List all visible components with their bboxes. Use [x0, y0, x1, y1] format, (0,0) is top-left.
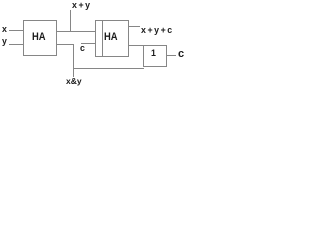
wire carry output: [167, 55, 176, 56]
wire vertical jog at x95: [95, 20, 96, 57]
half adder HA1: [23, 20, 57, 56]
output label c: [178, 50, 184, 59]
wire HA2 sum output: [129, 26, 140, 27]
wire x&y horizontal: [73, 68, 144, 69]
wire carry-in c: [81, 43, 95, 44]
or gate box 1: [143, 45, 167, 67]
node label x+y: [72, 1, 92, 10]
wire HA1 carry output: [57, 44, 74, 45]
node label x&y: [66, 77, 82, 86]
input label x: [2, 25, 7, 34]
wire riser to x+y label: [70, 10, 71, 32]
wire x input: [9, 30, 24, 31]
label HA1 text: [32, 33, 46, 42]
wire jog bottom into HA2: [95, 56, 103, 57]
label HA2 text: [104, 33, 118, 42]
wire y input: [9, 44, 24, 45]
wire HA1 sum output: [57, 31, 95, 32]
half adder HA2: [102, 20, 129, 57]
carry-in label c: [80, 44, 85, 53]
wire vertical drop at x73: [73, 44, 74, 77]
output label x+y+c: [141, 26, 174, 35]
wire jog top into HA2: [95, 20, 103, 21]
wire HA2 carry output: [129, 45, 143, 46]
label or gate 1: [151, 49, 156, 58]
input label y: [2, 37, 7, 46]
